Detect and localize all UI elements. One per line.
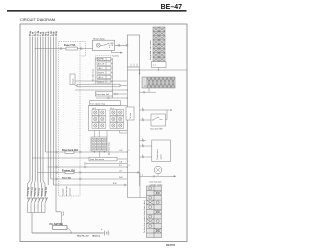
turn signal grid: main box: [89, 106, 128, 131]
feed to F/L fuse: [56, 212, 62, 226]
connector ticks at dashed box edge: [56, 151, 57, 180]
svg-text:Unlock warn: Unlock warn: [156, 149, 159, 159]
junction node at (139.5,70): [139, 69, 140, 70]
tiny wire code labels near bus: [113, 108, 143, 185]
dashed 2P connector note: [96, 56, 111, 61]
svg-text:CIRCUIT DIAGRAM: CIRCUIT DIAGRAM: [20, 17, 55, 22]
grid cells group A: [92, 110, 124, 129]
small vertical component box (noise filter): [70, 74, 75, 85]
wire 5: [39, 37, 41, 181]
svg-text:+B1 L: +B1 L: [98, 68, 103, 70]
wire 8: [47, 37, 49, 186]
wire: bundle to room lamp: [35, 48, 92, 50]
svg-text:4: 4: [142, 155, 143, 157]
svg-text:Door lock relay: Door lock relay: [108, 142, 111, 155]
junction dot wire8 y=167: [48, 166, 49, 167]
strip S3 (bottom right connector): [147, 186, 162, 238]
connector marks on fuse wire: [60, 47, 82, 50]
wire net y=163.5: [86, 163, 127, 165]
wire net y=152 (door lock feed): [46, 151, 128, 153]
unlock warning box: [152, 140, 171, 162]
svg-text:To door lock control relay (ba: To door lock control relay (back door): [143, 200, 146, 233]
switch tails: [28, 203, 46, 212]
svg-text:1J: 1J: [145, 85, 147, 87]
svg-text:BE–47: BE–47: [161, 4, 183, 11]
svg-text:To door: To door: [129, 112, 132, 119]
svg-text:Hea F/L 2.0: Hea F/L 2.0: [77, 235, 89, 237]
svg-text:4: 4: [142, 175, 143, 177]
thin bus-bar rectangle: [77, 84, 120, 87]
junction dot wire2 y=158: [32, 157, 33, 158]
svg-text:GND B: GND B: [98, 81, 105, 83]
junction block strip S2: [142, 77, 175, 88]
drops from grid box to lower grid: [95, 131, 120, 138]
page background: [0, 0, 192, 250]
right vertical bus: [139, 67, 141, 186]
lower wires: [117, 158, 127, 160]
branch below room lamp with arrow: [112, 51, 121, 53]
courtesy switches: [28, 197, 48, 202]
wire 3: [34, 37, 36, 181]
wire 6: [42, 37, 44, 181]
svg-text:To radio assy: To radio assy: [93, 69, 95, 81]
svg-text:R-L: R-L: [119, 165, 122, 167]
svg-text:Fuse 7.5A: Fuse 7.5A: [64, 44, 76, 47]
svg-text:4: 4: [142, 118, 143, 120]
fuse F1 symbol: [66, 47, 78, 50]
svg-text:Diode: Diode: [72, 78, 74, 83]
junction node at (158.5,70): [158, 69, 159, 70]
small box under S1: [152, 62, 167, 68]
down arrow from node: [139, 70, 141, 73]
bracket for row stack: [94, 58, 97, 84]
svg-text:window sys: window sys: [66, 186, 68, 196]
fuse F2 symbol: [65, 151, 74, 153]
svg-text:To dome: To dome: [112, 56, 119, 58]
terminal dot end of key wire: [170, 109, 172, 111]
svg-text:4: 4: [142, 108, 143, 110]
svg-text:Front door lock: Front door lock: [96, 93, 109, 96]
wire net y=185: [53, 184, 127, 186]
junction dot bus y=98: [127, 97, 128, 98]
cluster merge bus: [28, 212, 46, 214]
turn signal grid: header box: [90, 101, 121, 106]
door lock SW box: [151, 114, 166, 126]
junction dot bus y=90: [127, 89, 128, 90]
svg-text:ACC W: ACC W: [98, 63, 105, 66]
diagram border: [20, 24, 187, 242]
horizontal wires to left bus: [75, 89, 127, 91]
room lamp switch: [100, 43, 108, 45]
svg-text:connector: connector: [69, 187, 72, 196]
svg-text:To power: To power: [62, 188, 65, 196]
svg-text:Door lock motor: Door lock motor: [90, 158, 104, 161]
svg-text:To alt: To alt: [62, 211, 65, 216]
bundle wire code labels: [29, 30, 59, 36]
svg-text:ILL+ D: ILL+ D: [98, 59, 104, 61]
junction dot wire3/branch: [35, 48, 36, 49]
wire 7: [45, 37, 47, 153]
return wire to bottom: [31, 213, 33, 234]
svg-text:+B2 G: +B2 G: [98, 77, 104, 79]
svg-text:4: 4: [142, 139, 143, 141]
header rule: [7, 10, 187, 12]
wire 2: [32, 37, 34, 181]
wire net y=167: [48, 166, 127, 168]
svg-text:Turn signal relay: Turn signal relay: [90, 103, 105, 105]
wire net y=158: [33, 157, 89, 159]
wire net y=172.5 (engine fuse feed): [38, 172, 128, 174]
svg-text:Tail 7.5A: Tail 7.5A: [62, 176, 71, 179]
wire to door key lock arrow: [140, 109, 170, 111]
svg-text:Door lock SW: Door lock SW: [150, 128, 162, 130]
wire 4: [37, 37, 39, 181]
bottom main wire: [32, 232, 103, 234]
junction dot bus y=167: [127, 166, 128, 167]
wire y=70 to right border: [127, 69, 187, 71]
wires from noise filter to bus: [75, 80, 127, 82]
stub under S2: [140, 88, 157, 92]
svg-text:4: 4: [142, 144, 143, 146]
wire net y=179: [51, 178, 128, 180]
svg-text:KSW R: KSW R: [98, 72, 105, 74]
front door label box: [95, 92, 113, 96]
svg-text:1: 1: [129, 150, 130, 152]
svg-text:B-W: B-W: [113, 183, 117, 185]
key cylinder: [154, 166, 162, 174]
svg-text:Door key lock: Door key lock: [150, 182, 162, 184]
svg-text:BE3704: BE3704: [166, 244, 176, 247]
junction dot wire4 y=172.5: [37, 172, 38, 173]
dashed fuse box extension (top): [80, 42, 86, 57]
wire y=176.3 with arrow: [140, 175, 175, 177]
tall dashed junction box outline: [59, 42, 81, 197]
fan wires into cluster: [28, 181, 46, 198]
left vertical bus: [126, 67, 128, 198]
battery BAT symbol: [105, 231, 109, 236]
integration connector strip S1: [153, 27, 165, 62]
fuse F3 symbol: [65, 171, 74, 173]
wire 10: [52, 37, 54, 186]
junction dot y=94: [117, 93, 118, 94]
right vertical segment: [139, 173, 141, 198]
svg-text:3: 3: [129, 165, 130, 167]
svg-text:Integration connector: Integration connector: [149, 40, 152, 60]
fusible link F/L AM symbol: [53, 226, 68, 230]
thin label bar: [89, 157, 117, 161]
stub y=140: [140, 140, 147, 142]
wire 1: [29, 37, 31, 181]
bus inline component box: [126, 107, 134, 120]
bottom-left courtesy switch cluster labels: [26, 186, 48, 196]
junction dot at bus y=152: [127, 151, 128, 152]
small connector-row stack (left column): [97, 58, 111, 84]
wires below G2: [94, 151, 95, 152]
svg-text:switch: switch: [160, 154, 163, 159]
bottom L of left bus: [127, 197, 146, 199]
wire room lamp to relay box: [115, 44, 128, 46]
svg-text:L-W: L-W: [119, 150, 123, 152]
integration relay box B1: [127, 35, 139, 67]
left wire bundle: [30, 37, 56, 212]
svg-text:Battery: Battery: [93, 234, 101, 237]
room lamp bulb: [96, 43, 100, 47]
junction dot fusible link to battery wire: [70, 232, 71, 233]
door lock control relay grid G2: [91, 137, 107, 151]
room lamp box: [93, 40, 115, 50]
wire 9: [50, 37, 52, 180]
collector wires from rows: [111, 58, 113, 98]
